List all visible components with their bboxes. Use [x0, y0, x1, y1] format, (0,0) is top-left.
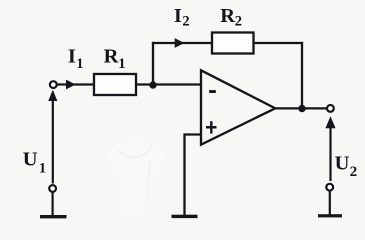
wire R2 to feedback corner	[254, 42, 304, 44]
current arrow I1	[66, 80, 76, 90]
terminal input bottom (circle)	[49, 185, 56, 192]
wire R1 to op-amp inverting input	[136, 83, 201, 85]
svg-text:2: 2	[350, 163, 358, 180]
terminal output bottom (circle)	[326, 184, 333, 191]
current arrow I2	[175, 38, 185, 48]
terminal input top (circle)	[50, 81, 57, 88]
ground (input)	[40, 215, 67, 218]
wire feedback top to R2	[152, 42, 212, 44]
wire op-amp output	[275, 107, 327, 109]
op-amp minus input marking	[209, 90, 216, 93]
wire non-inverting input	[185, 135, 202, 217]
label I1	[68, 46, 84, 72]
svg-text:I: I	[174, 5, 182, 27]
wire feedback riser	[152, 42, 154, 85]
label U2	[335, 153, 358, 180]
svg-text:1: 1	[76, 56, 83, 72]
resistor R1	[94, 74, 136, 95]
op-amp plus input marking	[206, 121, 217, 133]
label R2	[220, 5, 242, 30]
svg-text:1: 1	[39, 160, 46, 176]
wire output bottom terminal to ground	[329, 191, 331, 216]
svg-text:R: R	[104, 46, 119, 68]
label R1	[104, 46, 126, 72]
label I2	[174, 5, 190, 30]
wire feedback down to output node	[301, 42, 303, 109]
svg-text:U: U	[23, 148, 38, 170]
ground (output)	[318, 214, 342, 217]
svg-text:R: R	[220, 5, 235, 27]
node A (junction dot)	[149, 81, 156, 88]
wire input bottom terminal to ground	[51, 192, 53, 215]
label U1	[23, 148, 46, 176]
svg-text:I: I	[68, 46, 76, 68]
svg-text:U: U	[335, 153, 350, 175]
svg-text:1: 1	[118, 56, 125, 72]
wire input terminal to R1	[57, 83, 94, 85]
voltage arrow U1 (pointing up)	[48, 90, 57, 184]
resistor R2	[212, 33, 254, 54]
terminal output top (circle)	[327, 105, 334, 112]
ground (op-amp non-inverting input)	[172, 215, 198, 218]
voltage arrow U2 (pointing up)	[325, 116, 335, 181]
node output (junction dot)	[298, 105, 305, 112]
svg-text:2: 2	[235, 14, 242, 30]
svg-text:2: 2	[182, 14, 189, 30]
op-amp U1 triangle	[201, 70, 275, 144]
